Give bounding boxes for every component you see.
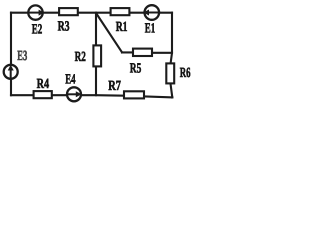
svg-text:R4: R4 [37, 77, 50, 92]
svg-text:R1: R1 [116, 20, 128, 35]
svg-text:R7: R7 [108, 79, 121, 94]
svg-text:E2: E2 [32, 22, 43, 37]
svg-text:R3: R3 [58, 20, 70, 35]
svg-text:R2: R2 [75, 50, 86, 65]
svg-text:R5: R5 [130, 62, 142, 77]
svg-text:E1: E1 [145, 22, 155, 37]
svg-text:E4: E4 [65, 73, 75, 88]
svg-text:E3: E3 [17, 49, 27, 64]
svg-text:R6: R6 [180, 66, 191, 81]
